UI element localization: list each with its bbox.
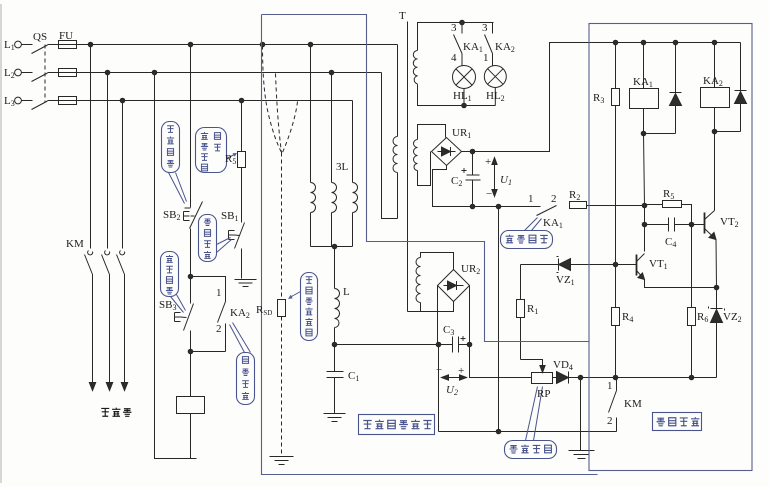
detection circuit box (stepped outline) <box>262 15 598 475</box>
resistor R1 <box>520 265 522 300</box>
wire R5 to SB1 <box>241 168 243 223</box>
wire L2 rail <box>77 72 382 74</box>
relay coil KA1 <box>643 43 645 89</box>
node L2 terminal <box>15 69 22 76</box>
wire secondary bottom to UR1 left <box>418 152 431 186</box>
svg-text:2: 2 <box>216 323 222 335</box>
wire bottom return <box>439 431 617 433</box>
wire lamp1 to bottom <box>463 89 465 106</box>
svg-text:VZ2: VZ2 <box>723 311 742 324</box>
transformer T lamp secondary winding <box>413 51 417 84</box>
resistor R5 (simulated leakage) <box>238 152 246 168</box>
zener VZ2 <box>709 288 725 378</box>
transistor VT2 <box>704 213 706 234</box>
rectifier UR2 inner diode <box>444 281 464 290</box>
svg-text:2: 2 <box>607 415 613 427</box>
wire common rail link <box>498 207 500 432</box>
diode VD4 <box>553 372 581 384</box>
push-button SB3 (start, NO) <box>175 277 194 331</box>
resistor R6 <box>691 225 693 308</box>
svg-text:L1: L1 <box>4 39 15 52</box>
ground for detector return <box>569 378 595 459</box>
svg-text:−: − <box>486 188 492 200</box>
svg-text:3: 3 <box>451 22 457 34</box>
wire UR2 minus to C3 left <box>437 286 439 345</box>
ground for SB1 <box>235 280 257 287</box>
svg-text:KA2: KA2 <box>230 307 250 320</box>
contact KA2 interlock blade <box>218 302 226 323</box>
svg-text:C2: C2 <box>451 175 462 188</box>
wire KM aux to bottom return <box>439 431 617 433</box>
svg-text:KA1: KA1 <box>633 76 653 89</box>
node detection LC <box>332 342 337 347</box>
contactor KM main pole 3 <box>117 251 125 391</box>
wire SB3 to node <box>190 331 192 352</box>
svg-text:KA2: KA2 <box>703 75 723 88</box>
label box: intermediate link <box>653 413 702 431</box>
wire UR1 minus output to rail <box>433 166 541 207</box>
svg-text:−: − <box>436 364 442 376</box>
fuse FU L2 <box>59 69 77 77</box>
callout: equivalent leakage resistance <box>288 273 318 341</box>
svg-text:L: L <box>343 286 350 298</box>
transformer T detector secondary winding <box>416 258 421 312</box>
wire VT2 emitter down <box>715 240 718 288</box>
svg-text:KA1: KA1 <box>463 41 483 54</box>
wire node A vertical (KA1 coil to VT1 collector) <box>644 134 645 252</box>
U2 measuring arrow <box>444 377 465 379</box>
svg-text:HL1: HL1 <box>453 90 472 103</box>
wire VT2 collector <box>714 132 716 211</box>
svg-text:1: 1 <box>607 380 613 392</box>
switch QS pole 1 <box>22 45 59 54</box>
wire R2 to node A <box>587 205 645 207</box>
svg-text:R2: R2 <box>569 189 580 202</box>
svg-text:3L: 3L <box>336 161 349 173</box>
rectifier UR1 inner diode <box>438 147 456 156</box>
svg-text:L2: L2 <box>4 67 15 80</box>
svg-text:U2: U2 <box>446 384 458 397</box>
svg-text:VT1: VT1 <box>649 258 668 271</box>
contact KA1 self-hold (pins 1-2) <box>537 206 557 216</box>
transformer T core <box>407 22 409 312</box>
ground for C1 <box>324 414 346 422</box>
wire equivalent leakage dashed drop <box>281 153 283 300</box>
svg-text:SB2: SB2 <box>163 209 180 222</box>
callout: simulated leakage resistance <box>196 128 238 173</box>
load arrow 1 <box>89 383 95 391</box>
callout: self-hold contact <box>501 218 553 249</box>
capacitor C4 <box>645 218 692 232</box>
coil 3L phase1 drop <box>310 45 312 183</box>
C2 plus mark <box>462 168 467 173</box>
wire VT1 base from VZ1 node <box>616 264 637 266</box>
svg-text:KM: KM <box>66 238 84 250</box>
callout: test button <box>199 215 232 262</box>
svg-text:QS: QS <box>33 31 47 43</box>
contactor KM main pole 1 <box>85 251 93 391</box>
wire L1 control drop to SB2 <box>190 45 192 208</box>
coil 3L phase1 winding <box>311 183 316 247</box>
lamp HL1 <box>453 66 476 89</box>
wire L3 drop to KM pole3 <box>122 101 124 249</box>
svg-text:VD4: VD4 <box>553 359 573 372</box>
svg-text:FU: FU <box>59 30 73 42</box>
diode VD1 (across KA1) <box>644 43 682 134</box>
wire L2 return drop (control return) <box>155 73 197 459</box>
lamp HL2 <box>484 66 506 88</box>
wire UR2 plus to C3 right <box>469 286 471 345</box>
capacitor C2 <box>466 152 481 207</box>
contact KA2 interlock branch wires <box>191 277 226 352</box>
svg-text:VT2: VT2 <box>720 216 739 229</box>
resistor R5 (to VT2 base) <box>663 201 682 208</box>
svg-text:VZ1: VZ1 <box>556 274 575 287</box>
node L1 terminal <box>15 41 22 48</box>
transistor VT1 <box>636 255 638 276</box>
QS interlock dashed link <box>44 45 46 103</box>
wire C3 minus down to bottom wire <box>438 345 440 432</box>
leakage funnel dashed line from L2 <box>276 74 282 153</box>
leakage funnel dashed line from L1 <box>263 46 282 153</box>
svg-text:UR1: UR1 <box>452 127 471 140</box>
relay coil KA2 <box>714 43 716 88</box>
resistor R2 <box>570 202 587 209</box>
node L3 terminal <box>15 97 22 104</box>
svg-text:R5: R5 <box>663 188 674 201</box>
svg-text:2: 2 <box>551 193 557 205</box>
svg-text:4: 4 <box>451 52 457 64</box>
load arrow 3 <box>121 383 127 391</box>
svg-text:KA1: KA1 <box>543 217 563 230</box>
coil 3L phase2 winding <box>332 183 337 247</box>
callout: stop button <box>162 122 187 204</box>
wire detector secondary top to UR2 <box>421 253 454 270</box>
leakage funnel dashed line from L3 <box>283 102 298 153</box>
wire SB2 to node <box>190 229 192 277</box>
wire 3L common bus <box>311 246 353 248</box>
wire L2 drop to KM pole2 <box>107 73 109 249</box>
wire lamp secondary top <box>418 23 494 51</box>
wire bus to L <box>334 247 336 289</box>
resistor RSD (equivalent leakage) <box>278 300 286 317</box>
wire lamp secondary bottom <box>418 84 496 105</box>
wire detector secondary bottom to UR2 <box>408 302 454 312</box>
wire RSD to ground dashed <box>281 317 283 456</box>
svg-text:1: 1 <box>483 52 489 64</box>
svg-text:R3: R3 <box>593 92 604 105</box>
svg-text:R1: R1 <box>527 303 538 316</box>
load arrow 2 <box>106 383 112 391</box>
svg-text:KM: KM <box>624 398 642 410</box>
svg-text:U1: U1 <box>500 174 512 187</box>
svg-text:C1: C1 <box>348 370 359 383</box>
wire lamp2 to bottom <box>494 88 496 106</box>
label go to load (black CJK) <box>101 408 131 417</box>
switch QS pole 3 <box>22 101 59 110</box>
fuse FU L1 <box>59 41 77 49</box>
push-button SB2 (stop, NC) <box>184 202 203 229</box>
coil 3L phase3 drop <box>352 101 354 183</box>
wire L1 rail <box>77 44 398 46</box>
svg-text:SB1: SB1 <box>221 210 238 223</box>
wire to VT2 base <box>692 224 705 226</box>
svg-text:T: T <box>399 10 406 22</box>
wire L3 rail <box>77 100 353 102</box>
rectifier UR1 bridge <box>432 138 462 166</box>
inductor L <box>335 289 340 345</box>
potentiometer RP wiper <box>521 360 543 367</box>
fuse FU L3 <box>59 97 77 105</box>
U1 measuring arrow <box>494 161 496 194</box>
svg-text:RP: RP <box>537 388 550 400</box>
potentiometer RP body <box>532 373 553 384</box>
transformer T rectifier secondary winding <box>414 140 418 171</box>
wire emitter return rail <box>581 377 717 379</box>
ground for RSD <box>270 457 294 465</box>
transformer T primary winding <box>393 137 398 219</box>
callout: leakage sampling <box>505 387 557 459</box>
wire secondary top to UR1 <box>418 125 446 140</box>
wire LC node to C3 <box>335 344 439 346</box>
diode VD2 (across KA2) <box>715 43 747 132</box>
svg-text:1: 1 <box>216 287 222 299</box>
transformer T primary from L1 <box>397 45 399 137</box>
svg-text:+: + <box>458 365 464 377</box>
svg-text:+: + <box>485 156 491 168</box>
svg-text:C4: C4 <box>665 236 676 249</box>
wire VT1 emitter to common <box>645 280 717 288</box>
svg-text:3: 3 <box>482 22 488 34</box>
label box: leakage detection circuit <box>359 415 435 435</box>
svg-text:L3: L3 <box>4 95 15 108</box>
svg-text:R6: R6 <box>697 311 708 324</box>
contact KA1 (lamp1 branch, pins 3-4) <box>454 23 463 66</box>
svg-text:R4: R4 <box>622 311 633 324</box>
svg-text:KA2: KA2 <box>495 41 515 54</box>
svg-text:UR2: UR2 <box>461 263 480 276</box>
contact KM auxiliary (pins 1-2, NC) <box>609 378 617 432</box>
svg-text:C3: C3 <box>443 324 454 337</box>
wire UR1 plus output <box>462 43 741 152</box>
transformer T primary return to L2 <box>382 73 398 219</box>
rectifier UR2 bridge <box>438 270 470 302</box>
coil 3L phase3 winding <box>353 183 358 247</box>
resistor R3 <box>615 43 617 89</box>
coil 3L phase2 drop <box>331 73 333 183</box>
capacitor C1 <box>327 345 344 414</box>
push-button SB1 (test, NO) <box>229 223 245 279</box>
C3 plus mark <box>461 336 466 341</box>
contact KA2 (lamp2 branch, pins 3-1) <box>485 23 493 66</box>
switch QS pole 2 <box>22 73 59 82</box>
callout: start button <box>161 252 186 313</box>
wire L1 drop to KM pole1 <box>90 45 92 249</box>
capacitor C3 <box>439 337 470 353</box>
svg-text:1: 1 <box>528 193 534 205</box>
contactor KM main pole 2 <box>102 251 110 391</box>
svg-text:HL2: HL2 <box>486 90 505 103</box>
coil KM <box>190 352 192 397</box>
resistor R4 <box>615 265 617 308</box>
intermediate link box <box>589 24 752 471</box>
wire C3 plus to RP <box>470 345 532 378</box>
callout: interlock contact <box>230 323 255 405</box>
zener VZ1 <box>521 257 616 273</box>
resistor R5 branch from L3 <box>241 101 243 152</box>
svg-text:RSD: RSD <box>256 304 272 317</box>
